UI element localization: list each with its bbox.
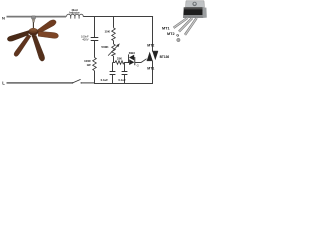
capacitor C1 plates <box>91 38 99 41</box>
node L label <box>2 80 5 85</box>
capacitor C3 bottom lead <box>124 75 126 84</box>
wire N to inductor (top cable) <box>7 16 67 18</box>
wire L to switch <box>7 82 73 84</box>
fan motor hub <box>29 28 39 37</box>
capacitor C2 bottom lead <box>112 75 114 84</box>
svg-text:L: L <box>2 80 5 85</box>
svg-text:DB3: DB3 <box>129 51 135 55</box>
wire R1 to potentiometer <box>113 41 115 45</box>
triac part number BT136 <box>160 55 170 59</box>
svg-text:1W: 1W <box>87 63 91 67</box>
svg-text:33K: 33K <box>117 56 122 60</box>
TO-220 pin label MT1 <box>162 26 170 30</box>
TO-220 package tab <box>186 1 205 8</box>
capacitor C3 value label 0.1uF <box>118 78 126 82</box>
wire bottom jog <box>94 82 96 85</box>
svg-text:MT2: MT2 <box>167 32 175 36</box>
svg-text:MT1: MT1 <box>162 26 170 30</box>
svg-text:0.1uF: 0.1uF <box>101 78 109 82</box>
triac label MT2 <box>147 43 154 47</box>
switch SW1 blade <box>72 79 82 83</box>
bottom wire of circuit <box>94 83 153 85</box>
diac D1 DB3 label <box>129 51 135 55</box>
wire pot to middle node <box>113 56 115 63</box>
fan blade upper-right <box>37 20 57 34</box>
inductor L1 value label 40uH Inductor <box>69 8 79 15</box>
TO-220 package body <box>183 7 207 18</box>
wire R2 to diac <box>124 62 129 64</box>
capacitor C2 plates <box>110 72 116 75</box>
svg-text:Inductor: Inductor <box>69 11 79 15</box>
wire triac MT1 side <box>152 61 154 84</box>
svg-text:100R: 100R <box>84 59 90 63</box>
svg-text:G: G <box>176 34 179 38</box>
wire top to resistor R1 <box>113 16 115 28</box>
wire inductor to top-right corner <box>83 16 153 18</box>
inductor L1 coil <box>67 14 84 18</box>
capacitor C3 plates <box>122 72 128 75</box>
svg-text:MT1: MT1 <box>147 67 154 71</box>
svg-text:400V: 400V <box>82 38 88 42</box>
capacitor C2 0.1uF top lead <box>112 63 114 72</box>
svg-text:BT136: BT136 <box>160 55 170 59</box>
svg-text:MT2: MT2 <box>147 43 154 47</box>
wire right branch MT2 side <box>152 16 154 51</box>
node N label <box>2 15 5 20</box>
capacitor C2 value label 0.1uF <box>101 78 109 82</box>
TO-220 pin label G <box>176 34 179 38</box>
wire R3 to bottom wire <box>94 71 96 84</box>
TO-220 leg MT1 <box>174 18 188 28</box>
wire switch to bottom-left corner <box>81 82 95 84</box>
resistor R1 15K zigzag <box>112 28 116 41</box>
capacitor C1 branch wire top (100nF) <box>94 16 96 37</box>
resistor R1 value label 15K <box>104 29 110 33</box>
svg-text:500K: 500K <box>101 45 109 49</box>
resistor R2 33K zigzag <box>115 61 124 65</box>
triac label MT1 <box>147 67 154 71</box>
triac T1 symbol <box>147 51 158 60</box>
node G label (gate) <box>137 64 140 68</box>
potentiometer VR1 value label 500K <box>101 45 109 49</box>
fan blade lower-left <box>14 35 31 57</box>
TO-220 leg MT2 <box>179 18 192 32</box>
fan blade right <box>38 31 58 38</box>
potentiometer VR1 wiper arrow <box>108 43 120 55</box>
svg-text:0.1uF: 0.1uF <box>118 78 126 82</box>
fan hanger bracket <box>32 16 36 22</box>
metal washer dot below G <box>177 38 180 41</box>
fan down-rod <box>32 22 34 28</box>
fan blade left <box>7 31 28 42</box>
potentiometer VR1 500K zigzag <box>112 44 116 56</box>
wire diac to triac gate <box>135 59 147 63</box>
TO-220 pin label MT2 <box>167 32 175 36</box>
resistor R3 value label 100R 1W <box>84 59 91 67</box>
svg-text:N: N <box>2 15 5 20</box>
capacitor C1 value label 100nF 400V <box>81 34 89 41</box>
resistor R3 100R 1W zigzag <box>93 58 97 71</box>
middle wire node to R2 <box>113 62 116 64</box>
resistor R2 value label 33K <box>117 56 122 60</box>
svg-text:15K: 15K <box>104 29 110 33</box>
wire C1 to R3 <box>94 41 96 58</box>
diac D1 symbol <box>129 54 135 65</box>
svg-text:G: G <box>137 64 140 68</box>
capacitor C3 0.1uF top lead <box>124 63 126 72</box>
TO-220 leg G <box>185 18 197 35</box>
fan blade lower-right <box>32 35 44 61</box>
